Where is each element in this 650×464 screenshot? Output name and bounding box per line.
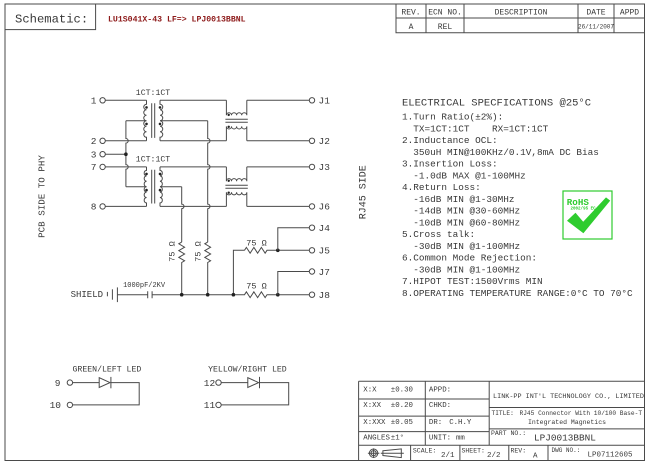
- title block: [359, 381, 645, 460]
- svg-text:4.Return Loss:: 4.Return Loss:: [402, 182, 481, 193]
- svg-text:75 Ω: 75 Ω: [168, 241, 178, 261]
- svg-text:-1.0dB MAX @1-100MHz: -1.0dB MAX @1-100MHz: [402, 170, 526, 181]
- svg-text:3: 3: [91, 150, 97, 161]
- shield terminal bar 1: [111, 289, 113, 299]
- terminal J7: [309, 269, 314, 274]
- resistor R1 75 ohm vertical: [179, 242, 185, 295]
- svg-text:DWG NO.:: DWG NO.:: [552, 447, 581, 454]
- svg-text:-10dB MIN @60-80MHz: -10dB MIN @60-80MHz: [402, 217, 520, 228]
- LED D1 green diode triangle: [99, 378, 110, 388]
- svg-text:3.Insertion Loss:: 3.Insertion Loss:: [402, 159, 498, 170]
- transformer T1 primary winding: [144, 100, 147, 141]
- choke L1 top winding: [226, 100, 246, 115]
- svg-text:LP07112605: LP07112605: [588, 452, 634, 460]
- svg-text:75 Ω: 75 Ω: [194, 241, 204, 261]
- terminal J5: [309, 248, 314, 253]
- svg-text:mm: mm: [456, 434, 465, 442]
- junction node pin3 center tap: [124, 152, 128, 156]
- specs text: [402, 98, 633, 299]
- wire shield to capacitor C1: [117, 294, 147, 296]
- svg-text:YELLOW/RIGHT LED: YELLOW/RIGHT LED: [208, 364, 287, 374]
- svg-text:ECN NO.: ECN NO.: [428, 9, 462, 18]
- wire pin12 to LED D2: [221, 382, 248, 384]
- svg-text:1CT:1CT: 1CT:1CT: [136, 156, 170, 165]
- choke L2 bottom phase dot: [228, 192, 230, 194]
- choke L1 bottom winding: [226, 126, 246, 140]
- wire R3 feed vertical from bus: [233, 250, 244, 294]
- svg-text:LINK-PP INT'L TECHNOLOGY CO.,: LINK-PP INT'L TECHNOLOGY CO., LIMITED: [493, 393, 644, 401]
- svg-text:SHIELD: SHIELD: [71, 290, 103, 300]
- svg-text:X:XX: X:XX: [363, 402, 381, 410]
- pin 7 terminal: [100, 164, 105, 169]
- svg-text:LU1S041X-43 LF=> LPJ0013BBNL: LU1S041X-43 LF=> LPJ0013BBNL: [108, 16, 246, 25]
- svg-text:11: 11: [204, 400, 216, 411]
- junction node bus R4 output: [276, 293, 280, 297]
- wire to J4: [278, 228, 310, 251]
- svg-text:DESCRIPTION: DESCRIPTION: [495, 9, 548, 18]
- T2 secondary phase dot lower: [159, 189, 162, 192]
- svg-text:X:X: X:X: [363, 387, 377, 395]
- pin 2 terminal: [100, 138, 105, 143]
- wire T1 secondary center tap stub: [160, 120, 208, 122]
- svg-text:7.HIPOT TEST:1500Vrms MIN: 7.HIPOT TEST:1500Vrms MIN: [402, 276, 543, 287]
- svg-text:8: 8: [91, 202, 97, 213]
- svg-text:±1°: ±1°: [391, 433, 404, 442]
- terminal J4: [309, 225, 314, 230]
- svg-text:1000pF/2KV: 1000pF/2KV: [123, 282, 166, 290]
- choke L2 top winding: [226, 167, 246, 181]
- svg-text:TX=1CT:1CT RX=1CT:1CT: TX=1CT:1CT RX=1CT:1CT: [402, 123, 549, 134]
- junction node bus R3 feed: [232, 293, 236, 297]
- LED D1 cathode bar: [110, 377, 112, 388]
- resistor R3 75 ohm horizontal: [245, 247, 310, 253]
- shield terminal tick: [106, 292, 108, 296]
- LED sub-circuits: [50, 364, 289, 411]
- terminal J8: [309, 292, 314, 297]
- svg-text:-30dB MIN @1-100MHz: -30dB MIN @1-100MHz: [402, 241, 520, 252]
- T1 primary phase dot upper: [145, 106, 148, 109]
- choke L1 top phase dot: [228, 114, 230, 116]
- svg-text:SCALE:: SCALE:: [413, 447, 436, 454]
- svg-text:GREEN/LEFT LED: GREEN/LEFT LED: [73, 364, 142, 374]
- junction node bus R1: [180, 293, 184, 297]
- resistor R2 75 ohm vertical: [205, 242, 211, 295]
- junction node bus R2: [206, 293, 210, 297]
- svg-text:ELECTRICAL SPECFICATIONS @25°C: ELECTRICAL SPECFICATIONS @25°C: [402, 98, 591, 110]
- svg-text:5.Cross talk:: 5.Cross talk:: [402, 229, 475, 240]
- svg-text:DR:: DR:: [429, 419, 442, 427]
- title block grid: [359, 381, 645, 460]
- svg-text:C.H.Y: C.H.Y: [449, 419, 472, 427]
- T2 primary phase dot lower: [145, 189, 148, 192]
- wire T1 primary center tap stub: [126, 120, 147, 122]
- wire center-tap vertical with hops over pin2 and pin7 wires: [126, 121, 128, 187]
- svg-text:1.Turn Ratio(±2%):: 1.Turn Ratio(±2%):: [402, 112, 503, 123]
- schematic core: [37, 89, 370, 302]
- svg-text:-14dB MIN @30-60MHz: -14dB MIN @30-60MHz: [402, 206, 520, 217]
- wire T2 primary center tap stub: [126, 186, 147, 188]
- wire T2 secondary bottom to choke L2: [160, 205, 226, 207]
- svg-text:A: A: [409, 23, 414, 32]
- pin 9 terminal: [67, 380, 72, 385]
- transformer T1 secondary winding: [160, 100, 163, 141]
- svg-text:REV.: REV.: [401, 9, 420, 18]
- svg-text:26/11/2007: 26/11/2007: [578, 23, 614, 30]
- svg-text:75 Ω: 75 Ω: [246, 282, 266, 292]
- RoHS box: [563, 191, 612, 239]
- pin 1 terminal: [100, 98, 105, 103]
- wire choke L1 to J1: [247, 99, 309, 101]
- transformer T2 primary winding: [144, 167, 146, 207]
- svg-text:REV:: REV:: [511, 447, 527, 454]
- wire T2 sec CT vertical to R1 with hop: [182, 187, 184, 242]
- wire T1 secondary bottom to choke L1: [160, 140, 226, 142]
- pin 12 terminal: [216, 380, 221, 385]
- revision table: [396, 4, 645, 33]
- svg-text:REL: REL: [438, 23, 453, 32]
- svg-text:350uH MIN@100KHz/0.1V,8mA DC B: 350uH MIN@100KHz/0.1V,8mA DC Bias: [402, 147, 599, 158]
- svg-text:10: 10: [50, 400, 62, 411]
- svg-text:CHKD:: CHKD:: [429, 402, 451, 410]
- RoHS logo: [563, 191, 612, 239]
- terminal J2: [309, 138, 314, 143]
- wire pin9 to LED D1: [73, 382, 100, 384]
- svg-text:2/1: 2/1: [441, 452, 455, 460]
- svg-text:J2: J2: [319, 136, 331, 147]
- svg-text:UNIT:: UNIT:: [429, 434, 451, 442]
- svg-text:9: 9: [55, 378, 61, 389]
- svg-text:2002/95 EC: 2002/95 EC: [571, 206, 597, 211]
- svg-text:J1: J1: [319, 96, 331, 107]
- wire choke L1 to J2: [247, 140, 309, 142]
- wire pin8 to T2 primary bottom: [105, 205, 146, 207]
- projection symbol cone: [381, 449, 404, 458]
- wire choke L2 to J3: [247, 166, 309, 168]
- T1 secondary phase dot upper: [159, 106, 162, 109]
- wire choke L2 to J6: [247, 205, 309, 207]
- svg-text:RoHS: RoHS: [567, 197, 590, 208]
- svg-text:2/2: 2/2: [487, 452, 501, 460]
- choke L2 core: [225, 185, 247, 188]
- svg-text:±0.05: ±0.05: [391, 419, 413, 427]
- svg-text:75 Ω: 75 Ω: [246, 238, 266, 248]
- T1 core: [152, 103, 155, 138]
- svg-text:Integrated Magnetics: Integrated Magnetics: [528, 419, 606, 426]
- svg-text:Schematic:: Schematic:: [15, 13, 88, 27]
- svg-text:DATE: DATE: [586, 9, 605, 18]
- LED D2 yellow diode triangle: [248, 378, 259, 388]
- wire LED D2 to pin 11: [221, 383, 289, 405]
- svg-text:12: 12: [204, 378, 216, 389]
- choke L1 bottom phase dot: [228, 126, 230, 128]
- svg-text:±0.30: ±0.30: [391, 387, 413, 395]
- svg-text:-30dB MIN @1-100MHz: -30dB MIN @1-100MHz: [402, 264, 520, 275]
- svg-text:RJ45 Connector With 10/100 Bas: RJ45 Connector With 10/100 Base-T: [520, 410, 643, 417]
- wire pin1 to T1 primary top: [105, 99, 146, 101]
- choke L2 bottom winding: [226, 192, 246, 206]
- wire T2 secondary top to choke L2: [160, 166, 226, 168]
- svg-text:TITLE:: TITLE:: [492, 410, 514, 417]
- svg-text:APPD: APPD: [620, 9, 639, 18]
- wire T2 secondary center tap stub: [160, 186, 182, 188]
- T1 secondary phase dot lower: [159, 123, 162, 126]
- LED D2 cathode bar: [259, 377, 261, 388]
- wire T1 secondary top to choke L1: [160, 99, 226, 101]
- shield terminal bar 2: [116, 287, 118, 302]
- wire to J7: [278, 272, 310, 295]
- svg-text:ANGLES: ANGLES: [363, 434, 390, 442]
- svg-text:2.Inductance OCL:: 2.Inductance OCL:: [402, 135, 498, 146]
- svg-text:PART NO.:: PART NO.:: [491, 430, 526, 437]
- terminal J3: [309, 164, 314, 169]
- T2 primary phase dot upper: [145, 173, 148, 176]
- wire ground bus with resistor R4 75 ohm: [152, 292, 309, 298]
- svg-text:J3: J3: [319, 162, 331, 173]
- pin 10 terminal: [67, 402, 72, 407]
- choke L2 top phase dot: [228, 180, 230, 182]
- svg-text:J8: J8: [319, 290, 331, 301]
- pin 3 terminal: [100, 152, 105, 157]
- svg-text:6.Common Mode Rejection:: 6.Common Mode Rejection:: [402, 253, 537, 264]
- svg-text:J6: J6: [319, 202, 331, 213]
- revision table grid: [396, 4, 645, 33]
- svg-text:PCB SIDE TO PHY: PCB SIDE TO PHY: [37, 155, 48, 238]
- transformer T2 secondary winding: [160, 167, 162, 207]
- Schematic title box: [5, 4, 246, 30]
- wire LED D1 to pin 10: [73, 383, 140, 405]
- svg-text:-16dB MIN @1-30MHz: -16dB MIN @1-30MHz: [402, 194, 515, 205]
- T2 core: [152, 170, 155, 204]
- svg-text:7: 7: [91, 162, 97, 173]
- capacitor C1 1000pF/2KV plates: [148, 291, 152, 298]
- projection symbol circles: [368, 448, 379, 458]
- pin 8 terminal: [100, 204, 105, 209]
- svg-text:LPJ0013BBNL: LPJ0013BBNL: [534, 433, 596, 444]
- choke L1 core: [225, 119, 247, 122]
- svg-text:J5: J5: [319, 246, 331, 257]
- svg-text:J7: J7: [319, 267, 330, 278]
- T1 primary phase dot lower: [145, 123, 148, 126]
- svg-text:1: 1: [91, 96, 97, 107]
- terminal J1: [309, 98, 314, 103]
- svg-text:1CT:1CT: 1CT:1CT: [136, 89, 170, 98]
- wire pin3 to center-tap node: [105, 153, 126, 155]
- pin 11 terminal: [216, 402, 221, 407]
- svg-text:X:XXX: X:XXX: [363, 419, 386, 427]
- svg-text:J4: J4: [319, 223, 331, 234]
- terminal J6: [309, 204, 314, 209]
- svg-text:A: A: [533, 453, 538, 461]
- RoHS checkmark: [567, 197, 610, 233]
- svg-text:APPD:: APPD:: [429, 387, 451, 395]
- junction node R3 output: [276, 249, 280, 253]
- wire pin2 to T1 primary bottom: [105, 140, 146, 142]
- svg-text:±0.20: ±0.20: [391, 402, 413, 410]
- wire pin7 to T2 primary top: [105, 166, 146, 168]
- svg-text:8.OPERATING TEMPERATURE RANGE:: 8.OPERATING TEMPERATURE RANGE:0°C TO 70°…: [402, 288, 633, 299]
- svg-text:SHEET:: SHEET:: [462, 447, 485, 454]
- svg-text:RJ45 SIDE: RJ45 SIDE: [358, 165, 369, 219]
- wire T1 sec CT vertical to R2 with hops: [208, 121, 210, 242]
- svg-text:2: 2: [91, 136, 97, 147]
- T2 secondary phase dot upper: [159, 173, 162, 176]
